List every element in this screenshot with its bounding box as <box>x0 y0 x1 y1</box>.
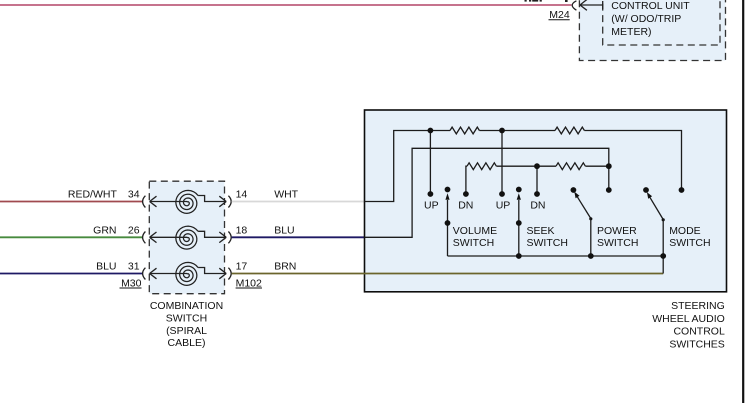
label 14 WHT <box>236 189 299 201</box>
svg-text:BRN: BRN <box>274 261 296 273</box>
wire seek DN contact drop <box>536 166 538 192</box>
connector female half row3 left <box>143 268 146 280</box>
svg-text:POWER: POWER <box>597 225 637 237</box>
label M102 <box>236 277 262 289</box>
seek switch pole arrow <box>516 187 522 256</box>
svg-text:(SPIRAL: (SPIRAL <box>166 325 207 337</box>
node mode switch fixed contact <box>679 187 685 193</box>
node power switch arm contact <box>571 187 577 193</box>
resistor R1 <box>450 127 479 134</box>
node junction third rail / BLU drop <box>606 163 612 169</box>
node mode switch arm contact <box>643 187 649 193</box>
coil 1 exit jog wire <box>198 196 226 202</box>
wire third rail left corner down to volume DN contact <box>466 166 467 194</box>
node volume UP contact <box>428 191 434 197</box>
coil 3 exit jog wire <box>198 268 226 274</box>
wire BLU (row 3 left) <box>0 273 143 275</box>
wire third rail middle <box>496 165 556 167</box>
svg-text:SWITCH: SWITCH <box>597 237 638 249</box>
node volume DN contact <box>463 191 469 197</box>
connector male arrow row1 left <box>150 196 188 207</box>
label GRN 26 <box>93 224 140 236</box>
resistor R2 <box>555 127 584 134</box>
svg-text:MODE: MODE <box>669 225 701 237</box>
cropped text remnants above PNK wire <box>525 0 568 2</box>
svg-text:18: 18 <box>236 224 248 236</box>
node junction bus / seek pole <box>516 253 522 259</box>
svg-text:STEERING: STEERING <box>671 300 725 312</box>
svg-text:RED/WHT: RED/WHT <box>68 189 118 201</box>
node seek UP contact <box>499 191 505 197</box>
connector M24 female half <box>572 1 576 10</box>
label M24 <box>549 9 570 21</box>
node junction third rail / seek DN <box>534 163 540 169</box>
node junction bus / power pole <box>588 253 594 259</box>
dashed box COMBINATION SWITCH (SPIRAL CABLE) <box>149 181 224 294</box>
label CONTROL UNIT (W/ ODO/TRIP METER) <box>611 0 690 38</box>
coil 2 exit jog wire <box>198 231 226 237</box>
wire top rail right, corner down to mode contact <box>584 131 681 191</box>
outer dashed box CONTROL UNIT (fill) <box>579 0 725 61</box>
label M30 <box>120 277 142 289</box>
connector male arrow row2 right <box>219 232 226 243</box>
resistor R3 <box>467 163 496 170</box>
connector male arrow row3 left <box>150 268 188 279</box>
connector female half row3 right <box>228 268 231 280</box>
connector male arrow row1 right <box>219 196 226 207</box>
svg-text:VOLUME: VOLUME <box>453 225 497 237</box>
svg-text:METER): METER) <box>611 26 651 38</box>
svg-text:WHEEL AUDIO: WHEEL AUDIO <box>652 313 725 325</box>
svg-text:SWITCH: SWITCH <box>166 312 207 324</box>
svg-text:GRN: GRN <box>93 224 116 236</box>
label POWER SWITCH <box>597 225 638 249</box>
svg-text:CONTROL UNIT: CONTROL UNIT <box>611 0 690 12</box>
wire GRN (row 2 left) <box>0 236 143 238</box>
svg-text:SWITCH: SWITCH <box>527 237 568 249</box>
wire seek UP contact drop <box>501 131 503 193</box>
label VOLUME SWITCH <box>453 225 497 249</box>
svg-text:34: 34 <box>128 189 140 201</box>
node power switch fixed contact <box>606 187 612 193</box>
svg-text:COMBINATION: COMBINATION <box>150 300 223 312</box>
svg-text:SEEK: SEEK <box>527 225 555 237</box>
svg-text:UP: UP <box>424 200 439 212</box>
inner dashed box CONTROL UNIT <box>603 0 720 45</box>
svg-text:UP: UP <box>496 200 511 212</box>
svg-text:SWITCH: SWITCH <box>669 237 710 249</box>
spiral cable coil 2 <box>176 226 198 249</box>
svg-text:CONTROL: CONTROL <box>673 326 724 338</box>
wire third rail right end <box>585 165 608 167</box>
svg-text:26: 26 <box>128 224 140 236</box>
svg-text:BLU: BLU <box>96 261 116 273</box>
svg-text:CABLE): CABLE) <box>168 337 206 349</box>
wire PNK (top) <box>0 4 571 6</box>
node junction top rail / volume UP <box>428 128 434 134</box>
wire BRN (row 3 right, runs into box) <box>232 273 664 275</box>
wire BLU (row 2 right) <box>232 236 365 238</box>
connector male arrow row3 right <box>219 268 226 279</box>
wire common bus <box>448 255 664 257</box>
svg-text:14: 14 <box>236 189 248 201</box>
svg-text:SWITCHES: SWITCHES <box>669 339 724 351</box>
spiral cable coil 1 <box>176 190 198 213</box>
connector M24 male arrow into control unit <box>580 0 603 10</box>
mode switch arm <box>647 192 665 273</box>
resistor R4 <box>556 163 585 170</box>
label SEEK SWITCH <box>527 225 568 249</box>
volume switch pole arrow <box>445 187 451 256</box>
node junction bus / mode pole / BRN riser <box>660 253 666 259</box>
connector female half row1 left <box>143 196 146 208</box>
connector female half row2 left <box>143 232 146 244</box>
wire WHT entry riser to top rail <box>365 131 451 202</box>
label COMBINATION SWITCH (SPIRAL CABLE) <box>150 300 223 349</box>
svg-text:WHT: WHT <box>274 189 298 201</box>
svg-text:17: 17 <box>236 261 248 273</box>
node junction top rail / seek UP <box>499 128 505 134</box>
box STEERING WHEEL AUDIO CONTROL SWITCHES <box>365 110 727 292</box>
svg-text:BLU: BLU <box>274 224 294 236</box>
wire volume UP contact drop <box>429 131 431 193</box>
label STEERING WHEEL AUDIO CONTROL SWITCHES <box>652 300 725 351</box>
label BLU 31 <box>96 261 140 273</box>
wire WHT (row 1 right) <box>232 201 365 203</box>
svg-text:DN: DN <box>530 200 545 212</box>
connector male arrow row2 left <box>150 232 188 243</box>
connector female half row2 right <box>228 232 231 244</box>
label RED/WHT 34 <box>68 189 140 201</box>
wire top rail middle <box>479 130 555 132</box>
svg-text:31: 31 <box>128 261 140 273</box>
wire RED/WHT (row 1 left) <box>0 201 143 203</box>
spiral cable coil 3 <box>176 262 198 285</box>
svg-text:(W/ ODO/TRIP: (W/ ODO/TRIP <box>611 13 681 25</box>
label MODE SWITCH <box>669 225 710 249</box>
svg-text:SWITCH: SWITCH <box>453 237 494 249</box>
node seek DN contact <box>534 191 540 197</box>
power switch arm <box>574 192 592 256</box>
label 17 BRN <box>236 261 297 273</box>
wire BLU entry riser to second rail <box>365 148 609 237</box>
label 18 BLU <box>236 224 295 236</box>
connector female half row1 right <box>228 196 231 208</box>
vertical page divider line right <box>742 0 744 403</box>
svg-text:DN: DN <box>458 200 473 212</box>
